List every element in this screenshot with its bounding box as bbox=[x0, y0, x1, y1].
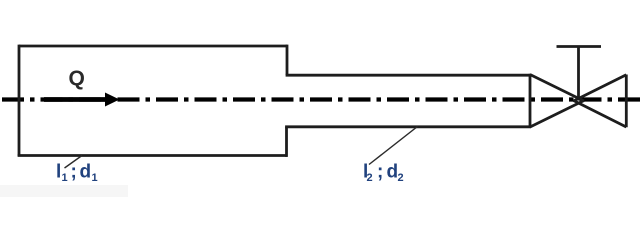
svg-text:Q: Q bbox=[69, 67, 85, 90]
label l2 ; d2 bbox=[363, 162, 404, 185]
svg-text:1: 1 bbox=[62, 172, 68, 184]
svg-text:1: 1 bbox=[92, 172, 98, 184]
valve V1 left seat / pipe end bbox=[529, 74, 532, 128]
svg-text:d: d bbox=[80, 162, 92, 183]
svg-text:2: 2 bbox=[398, 172, 404, 184]
valve V1 handle bbox=[557, 45, 602, 48]
leader line for l2;d2 bbox=[369, 127, 418, 165]
svg-text:;: ; bbox=[377, 162, 383, 183]
centerline (dash-dot axis) bbox=[2, 97, 642, 101]
faint scan artifact bottom-left bbox=[0, 185, 128, 197]
svg-text:;: ; bbox=[71, 162, 77, 183]
flow arrow bbox=[44, 93, 120, 107]
step (contraction) top bbox=[286, 45, 289, 75]
pipe 1 left wall bbox=[18, 45, 21, 156]
pipe 1 (large) top wall bbox=[19, 45, 287, 48]
step (contraction) bottom bbox=[285, 127, 288, 157]
svg-text:2: 2 bbox=[367, 172, 373, 184]
pipe 1 bottom wall bbox=[18, 154, 287, 157]
valve V1 stem bbox=[577, 47, 580, 101]
svg-text:d: d bbox=[387, 162, 399, 183]
pipe 2 (small) top wall bbox=[286, 74, 531, 77]
svg-text:l: l bbox=[56, 162, 61, 183]
label l1 ; d1 bbox=[56, 162, 98, 185]
valve V1 right wedge bbox=[574, 75, 627, 128]
pipe 2 bottom wall bbox=[285, 125, 531, 128]
valve V1 left wedge bbox=[530, 75, 584, 128]
leader line for l1;d1 bbox=[65, 156, 83, 169]
